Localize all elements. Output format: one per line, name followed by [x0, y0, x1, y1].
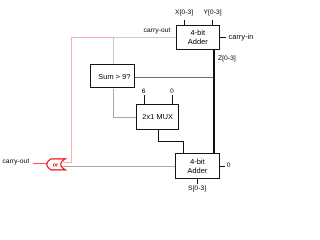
svg-text:or: or	[53, 162, 59, 168]
